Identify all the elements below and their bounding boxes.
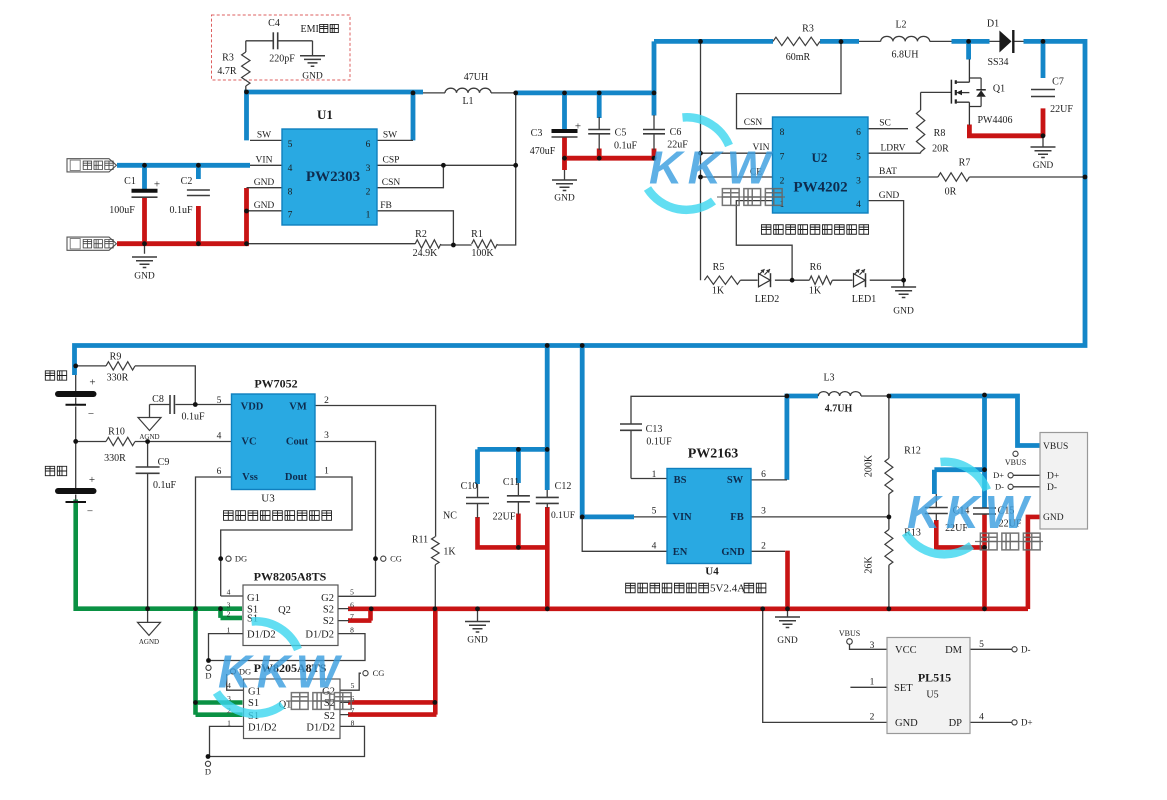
junction R13 ground bus (887, 606, 892, 611)
svg-text:1: 1 (366, 211, 371, 221)
wire: D1 leads (990, 40, 1024, 42)
svg-text:Q1: Q1 (993, 84, 1005, 95)
wire: C1 bottom stub (142, 198, 147, 244)
led LED1 (854, 274, 866, 287)
wire: R9 to C8/VDD net (76, 366, 232, 418)
watermark KKW top (648, 117, 786, 210)
svg-text:PW7052: PW7052 (254, 377, 297, 391)
wire: C10/C11/C12 bottom bus (red) (478, 507, 548, 609)
capacitor C13 0.1UF (620, 423, 642, 425)
svg-text:PW4406: PW4406 (978, 115, 1013, 126)
wire: battery stack column (75, 375, 77, 502)
svg-text:5: 5 (652, 507, 657, 517)
svg-text:D: D (205, 671, 211, 681)
ic U5 PL515 (887, 638, 970, 734)
svg-text:R11: R11 (412, 535, 428, 546)
junction C1 ground (142, 241, 147, 246)
wire: C7 top stub (1041, 41, 1046, 78)
svg-text:R1: R1 (471, 229, 483, 240)
capacitor C8 0.1uF (169, 395, 171, 414)
svg-text:22UF: 22UF (493, 512, 516, 523)
svg-text:L1: L1 (462, 96, 473, 107)
junction FB divider (451, 243, 456, 248)
svg-text:Q2: Q2 (278, 605, 291, 616)
connector USB VBUS (1040, 433, 1088, 530)
svg-text:470uF: 470uF (530, 146, 556, 157)
junction ground symbol tap (475, 606, 480, 611)
svg-text:U4: U4 (705, 566, 719, 578)
svg-text:C1: C1 (124, 176, 136, 187)
ground GND input (132, 257, 157, 268)
svg-text:200K: 200K (864, 454, 875, 477)
junction C11 ground (516, 545, 521, 550)
svg-text:R12: R12 (904, 446, 921, 457)
svg-text:SC: SC (879, 119, 891, 129)
ic U4 PW2163 (667, 469, 751, 564)
svg-text:3: 3 (227, 601, 231, 610)
svg-text:8: 8 (351, 719, 355, 728)
svg-text:R6: R6 (810, 262, 822, 273)
svg-text:2: 2 (870, 713, 875, 723)
wire: L1 leads (423, 92, 516, 94)
node D- output (1012, 647, 1017, 652)
transistor Q1 PW8205A8TS dual FET (244, 679, 341, 739)
node D+ output (1012, 720, 1017, 725)
svg-text:KKW: KKW (649, 142, 774, 194)
ic U1 PW2303 (282, 129, 377, 225)
svg-text:KKW: KKW (218, 646, 343, 698)
svg-text:8: 8 (288, 188, 293, 198)
svg-text:100uF: 100uF (109, 205, 135, 216)
node D Q1 (206, 754, 211, 759)
junction PL515 ground tap (760, 606, 765, 611)
svg-text:R3: R3 (802, 24, 814, 35)
resistor R12 200K (885, 458, 893, 494)
junction VDD C8 (193, 402, 198, 407)
wire: VIN input bus (blue) (117, 163, 250, 168)
svg-text:5V2.4A: 5V2.4A (710, 583, 745, 595)
svg-text:D1/D2: D1/D2 (247, 630, 276, 641)
svg-text:LED2: LED2 (755, 294, 779, 305)
svg-text:7: 7 (288, 211, 293, 221)
svg-text:47UH: 47UH (464, 72, 488, 83)
svg-text:U5: U5 (926, 690, 938, 701)
junction R7 BAT output (1083, 175, 1088, 180)
capacitor C3 470uF polarized (552, 129, 578, 133)
wire: U4 VIN feed (582, 346, 634, 517)
junction U2 VIN pin (698, 151, 703, 156)
wire: Q1 gate / R8 net (868, 92, 951, 153)
led LED2 (759, 274, 771, 287)
wire: U4 GND stub (751, 550, 785, 552)
svg-text:R5: R5 (713, 262, 725, 273)
capacitor C9 0.1uF (136, 466, 160, 468)
svg-text:1: 1 (652, 470, 657, 480)
svg-text:AGND: AGND (139, 638, 159, 646)
svg-text:U2: U2 (812, 150, 828, 165)
svg-text:8: 8 (780, 128, 785, 138)
wire: C14 leads (935, 494, 937, 521)
capacitor C6 22uF (643, 129, 665, 131)
svg-text:D1: D1 (987, 19, 999, 30)
wire: U1 pin stubs left (247, 140, 283, 210)
caption buck 5V2.4A circuit (626, 583, 709, 593)
svg-text:GND: GND (254, 201, 275, 211)
junction C14 branch (982, 467, 987, 472)
svg-text:DP: DP (949, 718, 963, 729)
svg-text:R9: R9 (110, 352, 122, 363)
svg-text:0.1UF: 0.1UF (551, 511, 575, 521)
svg-text:D-: D- (1047, 483, 1057, 493)
ground GND U4 (775, 617, 800, 628)
wire: C14/C15 top feed (934, 395, 984, 508)
wire: R12/R13 divider chain (888, 396, 890, 609)
svg-text:S2: S2 (323, 605, 334, 616)
wire: PL515 SET stub (850, 686, 887, 688)
svg-text:Dout: Dout (285, 472, 308, 483)
svg-text:7: 7 (780, 153, 785, 163)
svg-text:SW: SW (257, 131, 271, 141)
svg-text:AGND: AGND (139, 433, 159, 441)
svg-text:5: 5 (288, 140, 293, 150)
svg-text:EN: EN (673, 547, 688, 558)
junction L1 output (513, 91, 518, 96)
svg-text:0.1uF: 0.1uF (614, 141, 638, 152)
inductor L3 4.7UH (818, 392, 861, 396)
svg-text:GND: GND (1043, 513, 1064, 523)
junction C10 feed corner (545, 447, 550, 452)
junction C12 rail tap (545, 343, 550, 348)
resistor R6 1K (809, 276, 832, 284)
ground GND snubber (300, 56, 325, 66)
svg-text:3: 3 (324, 431, 329, 441)
svg-text:BS: BS (674, 475, 687, 486)
junction C7 tap (1041, 39, 1046, 44)
junction Q1 drain (966, 39, 971, 44)
svg-text:Vss: Vss (242, 472, 258, 483)
svg-text:1: 1 (870, 678, 875, 688)
wire: C5 C6 bottom leads (599, 115, 654, 150)
wire: U2 pin4 GND net (868, 201, 904, 287)
svg-text:CSN: CSN (382, 178, 401, 188)
svg-text:4: 4 (856, 200, 861, 210)
svg-text:3: 3 (366, 164, 371, 174)
svg-text:1K: 1K (712, 286, 725, 297)
wire: C14/C15 bottom (red) (936, 514, 984, 609)
junction C7 ground (1041, 133, 1046, 138)
svg-text:C8: C8 (152, 394, 164, 405)
svg-text:G2: G2 (321, 593, 334, 604)
svg-text:D1/D2: D1/D2 (305, 630, 334, 641)
battery cell 1 (55, 391, 97, 397)
svg-text:4: 4 (227, 588, 231, 597)
svg-text:4.7UH: 4.7UH (825, 404, 853, 415)
junction C11 top (516, 447, 521, 452)
svg-text:5: 5 (217, 396, 222, 406)
svg-text:C11: C11 (503, 477, 519, 488)
svg-text:330R: 330R (104, 453, 126, 464)
resistor R10 330R (106, 437, 135, 445)
junction U2 VIN rail (698, 39, 703, 44)
wire: C15 leads (984, 508, 986, 515)
svg-text:C7: C7 (1052, 77, 1064, 88)
svg-text:PW4202: PW4202 (793, 180, 847, 196)
wire: Q1 S2 pin stubs (340, 702, 349, 714)
wire: U2 SC stub (868, 128, 908, 130)
svg-text:CG: CG (390, 554, 402, 564)
wire: GND stubs black (145, 136, 1044, 622)
junction R11 ground bus (433, 606, 438, 611)
transistor Q1 PW4406 PMOS (950, 80, 952, 104)
junction CSP node (513, 163, 518, 168)
wire: C2 top stub (196, 165, 201, 179)
svg-text:BAT: BAT (879, 167, 897, 177)
wire: PL515 GND net (763, 609, 887, 722)
svg-text:VBUS: VBUS (1043, 442, 1068, 452)
svg-text:VDD: VDD (241, 402, 264, 413)
svg-text:VM: VM (289, 402, 307, 413)
svg-text:6: 6 (366, 140, 371, 150)
caption protection circuit (224, 511, 332, 521)
junction SW node left (244, 90, 249, 95)
svg-text:5: 5 (979, 640, 984, 650)
svg-text:3: 3 (761, 507, 766, 517)
junction C9 AGND green (145, 606, 150, 611)
wire: C2 bottom stub (196, 206, 201, 244)
capacitor C5 0.1uF (588, 129, 610, 131)
svg-text:VBUS: VBUS (1005, 458, 1026, 467)
node D Q2 (206, 658, 211, 663)
svg-text:GND: GND (134, 272, 155, 282)
junction C14 C15 ground (982, 545, 987, 550)
svg-text:330R: 330R (107, 373, 129, 384)
ic U3 PW7052 (232, 394, 316, 490)
svg-text:3: 3 (856, 177, 861, 187)
wire: battery negative to protection FETs (green) (76, 500, 242, 618)
svg-text:LED1: LED1 (852, 294, 876, 305)
wire: C13 bootstrap loop (631, 396, 787, 478)
svg-text:1: 1 (227, 626, 231, 635)
svg-text:GND: GND (254, 178, 275, 188)
wire: Q2 D1/D2 loop with D node (209, 634, 366, 661)
svg-text:GND: GND (554, 194, 575, 204)
svg-text:26K: 26K (864, 556, 875, 574)
svg-text:2: 2 (324, 396, 329, 406)
svg-text:C2: C2 (181, 176, 193, 187)
wire: U2 CSN sense net (737, 42, 842, 129)
wire: C1 top stub (142, 165, 147, 191)
svg-text:VIN: VIN (672, 512, 692, 523)
wire: input negative / GND bus (red) (117, 188, 247, 244)
svg-text:1: 1 (227, 719, 231, 728)
junction battery midpoint (73, 439, 78, 444)
svg-text:D1/D2: D1/D2 (248, 723, 277, 734)
junction L3 output (887, 394, 892, 399)
svg-text:C4: C4 (268, 18, 280, 29)
node D+ stub (1008, 473, 1013, 478)
junction C2 tap (196, 163, 201, 168)
svg-text:CSN: CSN (744, 118, 763, 128)
svg-text:60mR: 60mR (786, 52, 811, 63)
resistor R3 4.7R (242, 52, 250, 86)
svg-text:0.1UF: 0.1UF (646, 437, 672, 448)
node D- stub (1008, 484, 1013, 489)
svg-text:CG: CG (373, 668, 385, 678)
svg-text:GND: GND (895, 718, 918, 729)
svg-text:PW8205A8TS: PW8205A8TS (254, 570, 327, 584)
svg-text:D-: D- (1021, 645, 1031, 655)
svg-text:EMI: EMI (301, 24, 319, 35)
junction LED1 ground (901, 278, 906, 283)
svg-text:U3: U3 (261, 493, 275, 505)
svg-text:C9: C9 (158, 457, 170, 468)
svg-text:PW2163: PW2163 (688, 447, 739, 462)
svg-text:GND: GND (1033, 161, 1054, 171)
svg-text:0.1uF: 0.1uF (153, 480, 177, 491)
junction VC C9 (145, 439, 150, 444)
svg-text:6.8UH: 6.8UH (892, 50, 919, 61)
svg-text:R3: R3 (222, 53, 234, 64)
svg-text:C10: C10 (461, 481, 478, 492)
svg-text:GND: GND (879, 191, 900, 201)
junction R9 tap (73, 364, 78, 369)
capacitor C14 22UF (925, 507, 948, 509)
svg-text:DM: DM (945, 645, 963, 656)
resistor R5 1K (704, 276, 740, 284)
svg-text:C12: C12 (555, 481, 572, 492)
svg-text:R8: R8 (934, 128, 946, 139)
svg-text:+: + (154, 179, 160, 191)
junction C2 ground (196, 241, 201, 246)
svg-text:2: 2 (780, 177, 785, 187)
wire: feedback bottom net R2/R1 (247, 93, 516, 245)
wire: U4 VIN/EN stubs (582, 517, 667, 551)
svg-text:DG: DG (235, 554, 247, 564)
capacitor C11 (507, 495, 530, 497)
terminal input negative (67, 237, 117, 250)
wire: Q1 DG stub (227, 674, 244, 690)
node CG Q1 (363, 671, 368, 676)
resistor R7 0R (938, 173, 970, 181)
svg-text:2: 2 (366, 188, 371, 198)
svg-text:0.1uF: 0.1uF (181, 412, 205, 423)
svg-text:S1: S1 (248, 698, 259, 709)
svg-text:SW: SW (727, 475, 744, 486)
ground AGND1 (138, 418, 161, 431)
svg-text:2: 2 (761, 542, 766, 552)
svg-text:3: 3 (870, 641, 875, 651)
svg-text:VCC: VCC (895, 645, 917, 656)
wire: U4 SW riser and 5V output rail (787, 396, 1040, 480)
wire: L1 output to C6 riser (blue) (516, 41, 654, 130)
svg-text:G1: G1 (247, 593, 260, 604)
wire: Q1 S2 pins to ground bus (red) (348, 609, 437, 715)
ground GND C3 (552, 180, 577, 191)
svg-text:−: − (88, 408, 94, 420)
capacitor C4 220pF (272, 32, 274, 49)
wire: U3 Vss to battery negative (196, 477, 232, 607)
svg-text:R10: R10 (108, 427, 125, 438)
svg-text:+: + (575, 121, 581, 133)
wire: C10/C11/C12 plate leads (478, 483, 548, 518)
wire: top-right 5V rail (blue) (75, 41, 1086, 375)
wire: Q1 CG stub (340, 673, 361, 690)
resistor R8 20R (916, 110, 924, 152)
svg-text:1K: 1K (809, 286, 822, 297)
junction BS bootstrap (785, 394, 790, 399)
svg-text:U1: U1 (317, 107, 333, 122)
wire: CSP/CSN/FB nets (377, 165, 516, 245)
svg-text:C6: C6 (670, 127, 682, 138)
battery cell 2 (55, 488, 97, 494)
svg-text:L2: L2 (895, 20, 906, 31)
wire: L3 leads (818, 395, 890, 397)
svg-text:CSP: CSP (383, 156, 400, 166)
svg-text:R7: R7 (959, 158, 971, 169)
wire: C3/C5/C6 ground bus (red) (565, 138, 657, 171)
svg-text:4: 4 (652, 542, 657, 552)
junction Vss green (193, 606, 198, 611)
wire: U1 SW loop left/top/right (blue) (247, 92, 424, 140)
junction C15 ground bus (982, 606, 987, 611)
node CG (373, 556, 378, 561)
capacitor C7 22UF (1031, 89, 1055, 91)
wire: PL515 DM to D- (970, 648, 1012, 650)
junction CSN tap (441, 163, 446, 168)
junction C12 ground bus (545, 606, 550, 611)
svg-text:GND: GND (302, 72, 323, 82)
wire: U4 FB net (751, 516, 889, 518)
junction U4 VIN pin (580, 515, 585, 520)
wire: R10 to VC net with C9 (76, 442, 232, 623)
capacitor C10 22UF (466, 497, 489, 499)
svg-text:PW2303: PW2303 (306, 169, 360, 185)
svg-text:7: 7 (350, 612, 354, 621)
node VBUS tap (1013, 451, 1018, 456)
junction U4 ground bus (785, 606, 790, 611)
wire: U3 Dout to DG node to Q2 G1 (221, 477, 352, 596)
wire: U2 VIN/CE vertical net (701, 41, 773, 280)
watermark KKW bottom-left (217, 621, 355, 714)
svg-text:6: 6 (856, 128, 861, 138)
wire: U3 Cout to CG node to Q2 G2 (315, 442, 376, 597)
svg-text:+: + (89, 474, 95, 486)
svg-text:SW: SW (383, 131, 397, 141)
wire: U4 GND riser (red) (785, 551, 790, 609)
watermark KKW right (906, 462, 1044, 555)
junction Q2 S1 branch (218, 606, 223, 611)
svg-text:4.7R: 4.7R (217, 66, 237, 77)
junction input negative (244, 241, 249, 246)
resistor R2 24.9K (415, 240, 441, 248)
svg-text:FB: FB (380, 201, 392, 211)
wire: U2 pin1 to LED2/R6 node (736, 201, 792, 281)
svg-text:NC: NC (443, 511, 457, 522)
svg-text:5: 5 (350, 588, 354, 597)
junction U2 CE pin (698, 175, 703, 180)
svg-text:8: 8 (350, 626, 354, 635)
junction C5 ground bus (597, 156, 602, 161)
svg-text:R2: R2 (415, 229, 427, 240)
svg-text:C13: C13 (646, 424, 663, 435)
svg-text:100K: 100K (471, 248, 494, 259)
ic U2 PW4202 (773, 117, 869, 213)
capacitor C2 0.1uF (187, 189, 210, 191)
junction Q1 S2 lower (433, 700, 438, 705)
wire: Q1 D1/D2 loop with D node (210, 726, 365, 756)
ground GND LEDs (891, 287, 916, 298)
svg-text:0.1uF: 0.1uF (169, 205, 193, 216)
